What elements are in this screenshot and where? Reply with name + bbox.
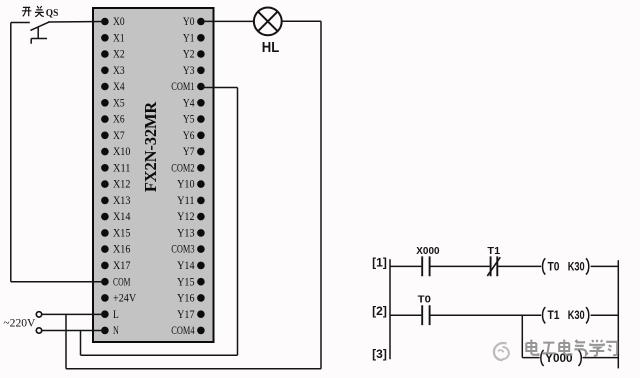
watermark char 电 (2nd) <box>559 340 571 355</box>
svg-text:X0: X0 <box>113 16 125 28</box>
wire: left rail from switch down to COM <box>10 23 12 282</box>
ladder rung 2 wire segments <box>390 314 618 316</box>
terminal X15 (PLC left pin) <box>101 228 131 240</box>
svg-text:Y12: Y12 <box>177 211 195 223</box>
wire: switch QS to X0 <box>48 21 105 24</box>
terminal Y12 (PLC right pin) <box>177 211 205 223</box>
wire: right drop from lamp down <box>320 21 322 369</box>
svg-text:COM3: COM3 <box>171 244 194 256</box>
watermark char 工 <box>542 343 556 354</box>
terminal Y1 (PLC right pin) <box>183 32 205 44</box>
watermark char 学 <box>590 340 605 356</box>
svg-text:X17: X17 <box>113 260 131 272</box>
terminal L (PLC left pin) <box>101 309 119 321</box>
terminal COM3 (PLC right pin) <box>171 244 204 256</box>
svg-text:K30: K30 <box>568 310 585 322</box>
svg-text:Y6: Y6 <box>183 130 195 142</box>
AC source terminal L (open circle) <box>36 312 41 317</box>
terminal Y6 (PLC right pin) <box>183 130 205 142</box>
svg-text:Y5: Y5 <box>183 114 195 126</box>
watermark text 电工电气学习 <box>526 340 617 356</box>
wire: branch from rung 2 down to rung 3 <box>521 315 523 357</box>
svg-text:COM1: COM1 <box>171 81 194 93</box>
wire: L source circle to L terminal <box>42 313 105 315</box>
svg-text:X4: X4 <box>113 81 125 93</box>
svg-text:K30: K30 <box>568 261 585 273</box>
svg-text:[3]: [3] <box>372 347 387 361</box>
terminal Y15 (PLC right pin) <box>177 276 205 288</box>
svg-text:N: N <box>113 325 119 337</box>
svg-text:COM2: COM2 <box>171 162 194 174</box>
terminal Y5 (PLC right pin) <box>183 114 205 126</box>
svg-text:Y11: Y11 <box>177 195 195 207</box>
terminal Y0 (PLC right pin) <box>183 16 205 28</box>
terminal N (PLC left pin) <box>101 325 119 337</box>
terminal X5 (PLC left pin) <box>101 97 125 109</box>
coil T0 K30 left paren <box>543 258 546 274</box>
svg-text:X3: X3 <box>113 65 125 77</box>
svg-text:Y2: Y2 <box>183 49 195 61</box>
svg-text:Y7: Y7 <box>183 146 195 158</box>
svg-text:Y16: Y16 <box>177 293 195 305</box>
svg-text:T0: T0 <box>418 294 431 306</box>
terminal COM1 (PLC right pin) <box>171 81 204 93</box>
terminal COM4 (PLC right pin) <box>171 325 204 337</box>
terminal Y3 (PLC right pin) <box>183 65 205 77</box>
terminal Y2 (PLC right pin) <box>183 49 205 61</box>
contact X000 (NO) <box>422 256 429 276</box>
terminal Y17 (PLC right pin) <box>177 309 205 321</box>
svg-text:X6: X6 <box>113 114 125 126</box>
PLC U1 FX2N-32MR body <box>93 8 214 342</box>
lamp HL <box>254 8 282 36</box>
wire: N branch bottom run <box>81 354 238 356</box>
svg-text:X11: X11 <box>113 162 131 174</box>
terminal Y16 (PLC right pin) <box>177 293 205 305</box>
svg-text:~220V: ~220V <box>3 317 36 329</box>
contact T1 (NC) <box>491 256 498 276</box>
svg-text:QS: QS <box>46 7 59 19</box>
svg-text:+24V: +24V <box>113 293 137 305</box>
svg-text:X14: X14 <box>113 211 131 223</box>
contact T0 (NO) <box>422 305 429 325</box>
terminal X1 (PLC left pin) <box>101 32 125 44</box>
terminal Y10 (PLC right pin) <box>177 179 205 191</box>
terminal X4 (PLC left pin) <box>101 81 125 93</box>
svg-text:X5: X5 <box>113 97 125 109</box>
ladder right rail <box>617 260 619 368</box>
terminal X17 (PLC left pin) <box>101 260 131 272</box>
svg-text:T1: T1 <box>548 310 561 322</box>
svg-text:Y0: Y0 <box>183 16 195 28</box>
svg-text:Y14: Y14 <box>177 260 195 272</box>
svg-text:X000: X000 <box>416 245 439 257</box>
coil Y000 right paren <box>579 350 582 366</box>
label 开关QS (switch QS) : 开 <box>22 7 32 16</box>
ladder rung 1 wire segments <box>390 265 618 267</box>
ladder rung 3 wire segments <box>522 357 618 359</box>
svg-text:Y3: Y3 <box>183 65 195 77</box>
svg-text:Y10: Y10 <box>177 179 195 191</box>
svg-text:COM: COM <box>113 276 130 288</box>
svg-text:Y13: Y13 <box>177 228 195 240</box>
terminal Y11 (PLC right pin) <box>177 195 205 207</box>
switch QS operator link <box>31 27 47 44</box>
svg-text:Y1: Y1 <box>183 32 195 44</box>
wire: riser up to COM1 level <box>237 88 239 356</box>
svg-text:[2]: [2] <box>372 304 387 318</box>
terminal X7 (PLC left pin) <box>101 130 125 142</box>
wire: switch QS left segment to left rail <box>11 22 30 24</box>
terminal Y7 (PLC right pin) <box>183 146 205 158</box>
svg-text:COM4: COM4 <box>171 325 194 337</box>
terminal X0 (PLC left pin) <box>101 16 125 28</box>
wire: left rail to COM terminal <box>11 281 105 283</box>
terminal COM2 (PLC right pin) <box>171 162 204 174</box>
svg-text:T0: T0 <box>548 261 560 273</box>
svg-text:[1]: [1] <box>372 255 387 269</box>
watermark char 习 <box>606 342 617 355</box>
terminal X10 (PLC left pin) <box>101 146 131 158</box>
label 开关QS : 关 <box>35 6 44 17</box>
coil T1 K30 left paren <box>543 307 546 323</box>
terminal Y13 (PLC right pin) <box>177 228 205 240</box>
terminal X16 (PLC left pin) <box>101 244 131 256</box>
svg-text:T1: T1 <box>487 245 500 257</box>
watermark char 气 <box>574 340 588 355</box>
terminal +24V (PLC left pin) <box>101 293 137 305</box>
coil T1 K30 right paren <box>586 307 589 323</box>
contact T1 slash <box>487 257 500 276</box>
wire: riser up to L wire <box>65 314 67 368</box>
svg-text:Y4: Y4 <box>183 97 195 109</box>
terminal Y14 (PLC right pin) <box>177 260 205 272</box>
wire: lamp HL to right drop <box>282 20 321 22</box>
svg-text:X16: X16 <box>113 244 131 256</box>
terminal X13 (PLC left pin) <box>101 195 131 207</box>
wire: bottom return to L branch <box>66 368 321 370</box>
coil T0 K30 right paren <box>586 258 589 274</box>
svg-text:X15: X15 <box>113 228 131 240</box>
terminal X3 (PLC left pin) <box>101 65 125 77</box>
terminal COM (PLC left pin) <box>101 276 130 288</box>
wire: N source circle to N terminal <box>42 330 105 332</box>
svg-text:Y17: Y17 <box>177 309 195 321</box>
svg-text:X12: X12 <box>113 179 131 191</box>
terminal X2 (PLC left pin) <box>101 49 125 61</box>
AC source terminal N (open circle) <box>36 328 41 333</box>
terminal X14 (PLC left pin) <box>101 211 131 223</box>
svg-text:Y15: Y15 <box>177 276 195 288</box>
svg-text:X7: X7 <box>113 130 125 142</box>
watermark char 电 (1st) <box>526 340 538 355</box>
terminal X11 (PLC left pin) <box>101 162 131 174</box>
ladder left rail <box>389 259 391 359</box>
watermark logo swirl <box>494 343 509 360</box>
svg-text:X10: X10 <box>113 146 131 158</box>
coil Y000 left paren <box>541 350 544 366</box>
wire: N branch down <box>80 331 82 356</box>
svg-text:HL: HL <box>262 40 280 56</box>
terminal X6 (PLC left pin) <box>101 114 125 126</box>
terminal Y4 (PLC right pin) <box>183 97 205 109</box>
svg-text:L: L <box>113 309 119 321</box>
switch QS blade (knife switch) <box>30 22 49 31</box>
svg-text:FX2N-32MR: FX2N-32MR <box>141 101 160 193</box>
wire: COM1 to riser <box>201 87 238 89</box>
svg-text:X1: X1 <box>113 32 125 44</box>
terminal X12 (PLC left pin) <box>101 179 131 191</box>
wire: Y0 to lamp HL <box>201 20 254 22</box>
svg-text:X2: X2 <box>113 49 125 61</box>
svg-text:X13: X13 <box>113 195 131 207</box>
